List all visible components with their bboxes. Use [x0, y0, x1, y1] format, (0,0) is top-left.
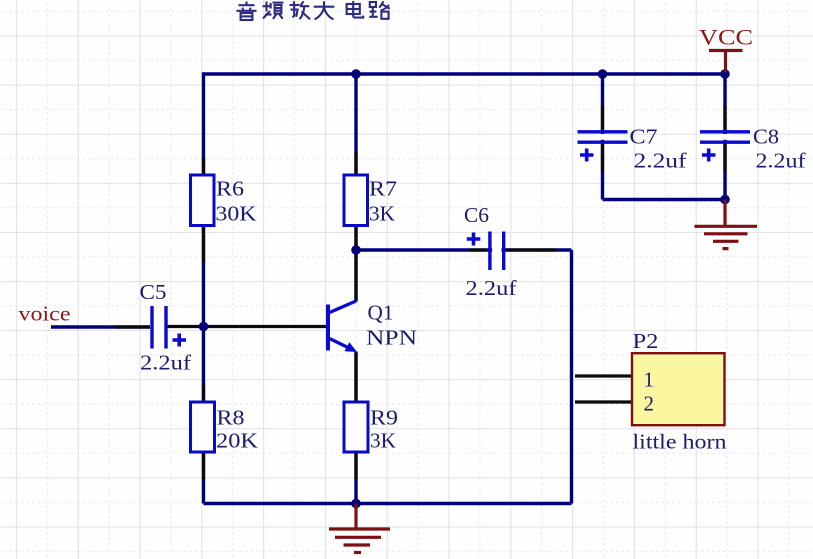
svg-text:NPN: NPN	[366, 326, 417, 350]
svg-text:3K: 3K	[369, 202, 395, 226]
svg-text:voice: voice	[19, 302, 71, 326]
svg-text:R6: R6	[216, 177, 244, 201]
svg-text:P2: P2	[633, 329, 659, 353]
svg-text:C6: C6	[464, 203, 489, 227]
svg-text:C5: C5	[140, 280, 167, 304]
svg-text:2.2uf: 2.2uf	[466, 276, 517, 300]
svg-text:2.2uf: 2.2uf	[756, 149, 806, 173]
svg-text:30K: 30K	[216, 202, 257, 226]
svg-text:Q1: Q1	[368, 301, 394, 325]
svg-text:2: 2	[644, 392, 655, 416]
svg-text:little horn: little horn	[633, 430, 728, 454]
svg-text:3K: 3K	[370, 429, 396, 453]
svg-text:R9: R9	[370, 406, 398, 430]
svg-text:C8: C8	[753, 125, 779, 149]
svg-text:C7: C7	[630, 125, 658, 149]
svg-text:R8: R8	[217, 406, 245, 430]
svg-text:1: 1	[644, 368, 655, 392]
svg-text:2.2uf: 2.2uf	[140, 351, 191, 375]
svg-text:VCC: VCC	[699, 25, 753, 50]
svg-text:2.2uf: 2.2uf	[634, 149, 687, 173]
svg-text:R7: R7	[369, 177, 397, 201]
svg-text:20K: 20K	[216, 429, 258, 453]
